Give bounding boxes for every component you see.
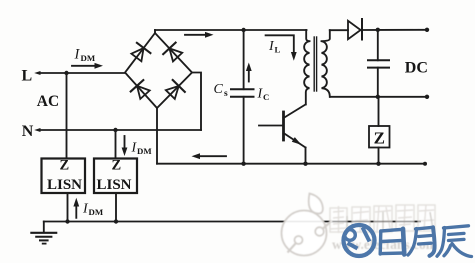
node LISN2 ground junction [114,219,118,223]
svg-text:L: L [275,45,281,55]
capacitor Cs [231,30,254,164]
transformer T1 secondary winding [322,30,330,97]
wire LISN1 bottom [67,193,69,222]
svg-text:I: I [74,47,81,63]
LISN box 1 [42,159,86,194]
node N-LISN2 junction [113,128,117,132]
wire N line [39,129,201,131]
impedance Z box right [369,97,390,164]
terminal arrow L [34,71,40,75]
wire N to bridge right vertex [192,73,201,131]
watermark blue ring logo [344,225,375,256]
node Z-rail junction [376,162,380,166]
node cap bottom junction [376,95,380,99]
svg-text:N: N [22,123,34,140]
svg-text:C: C [214,82,224,97]
watermark ghost chinese text [330,205,435,233]
node DC- terminal dot [425,95,429,99]
svg-text:s: s [224,89,228,99]
svg-text:L: L [22,68,33,85]
svg-text:LISN: LISN [97,177,132,193]
node L-LISN1 junction [64,71,68,75]
transformer T1 core [313,37,315,91]
wire LISN2 bottom [115,193,117,222]
node LISN1 ground junction [65,219,69,223]
svg-text:DM: DM [89,207,104,217]
wire secondary bottom rail [330,96,427,98]
svg-text:C: C [263,92,269,102]
svg-text:DM: DM [137,146,152,156]
svg-text:Z: Z [374,129,385,148]
wire N to LISN2 vertical [115,130,117,159]
node emitter-rail junction [303,162,307,166]
watermark ghost logo circle [282,194,438,256]
svg-text:Z: Z [112,158,122,174]
arrow IL bent down [266,35,297,60]
svg-text:AC: AC [37,93,59,110]
watermark blue char yue [408,227,435,256]
arrow Ic up [246,63,252,82]
diode D5 output rectifier [330,19,427,40]
arrow IDM up below LISN1 [73,198,79,218]
node DC+ cap junction [376,28,380,32]
ground [31,222,56,244]
arrow IDM down near LISN2 [122,136,128,156]
wire bridge top stub [154,30,156,33]
arrow current right on top rail [185,32,214,38]
watermark blue char ri [380,229,404,255]
wire bridge bottom to rail [156,108,158,164]
terminal arrow N [34,128,40,132]
svg-text:LISN: LISN [47,177,82,193]
transistor Q1 [259,105,306,164]
node bottom rail end dot [423,162,427,166]
arrow IDM right top-left [72,63,103,69]
LISN box 2 [94,159,137,194]
wire L to LISN1 vertical [66,73,68,159]
diode D1 top-left [131,43,150,62]
node Cs bottom junction [241,162,245,166]
wire L line [39,72,125,74]
capacitor C2 output [368,30,389,97]
wire bottom rail [157,163,425,165]
svg-text:DC: DC [405,60,428,77]
node Cs top junction [241,28,245,32]
svg-text:DM: DM [81,53,96,63]
arrow current left on bottom rail [192,153,227,159]
diode D4 bottom-right [166,80,185,99]
transformer T1 primary winding [304,30,309,105]
svg-text:Z: Z [60,158,70,174]
bridge rectifier diamond [125,33,192,108]
wire top rail [155,29,307,31]
node DC+ terminal dot [425,28,429,32]
wire ground bus [44,221,420,223]
watermark blue char chen [437,226,472,257]
diode D2 top-right [163,43,182,62]
diode D3 bottom-left [131,80,150,99]
